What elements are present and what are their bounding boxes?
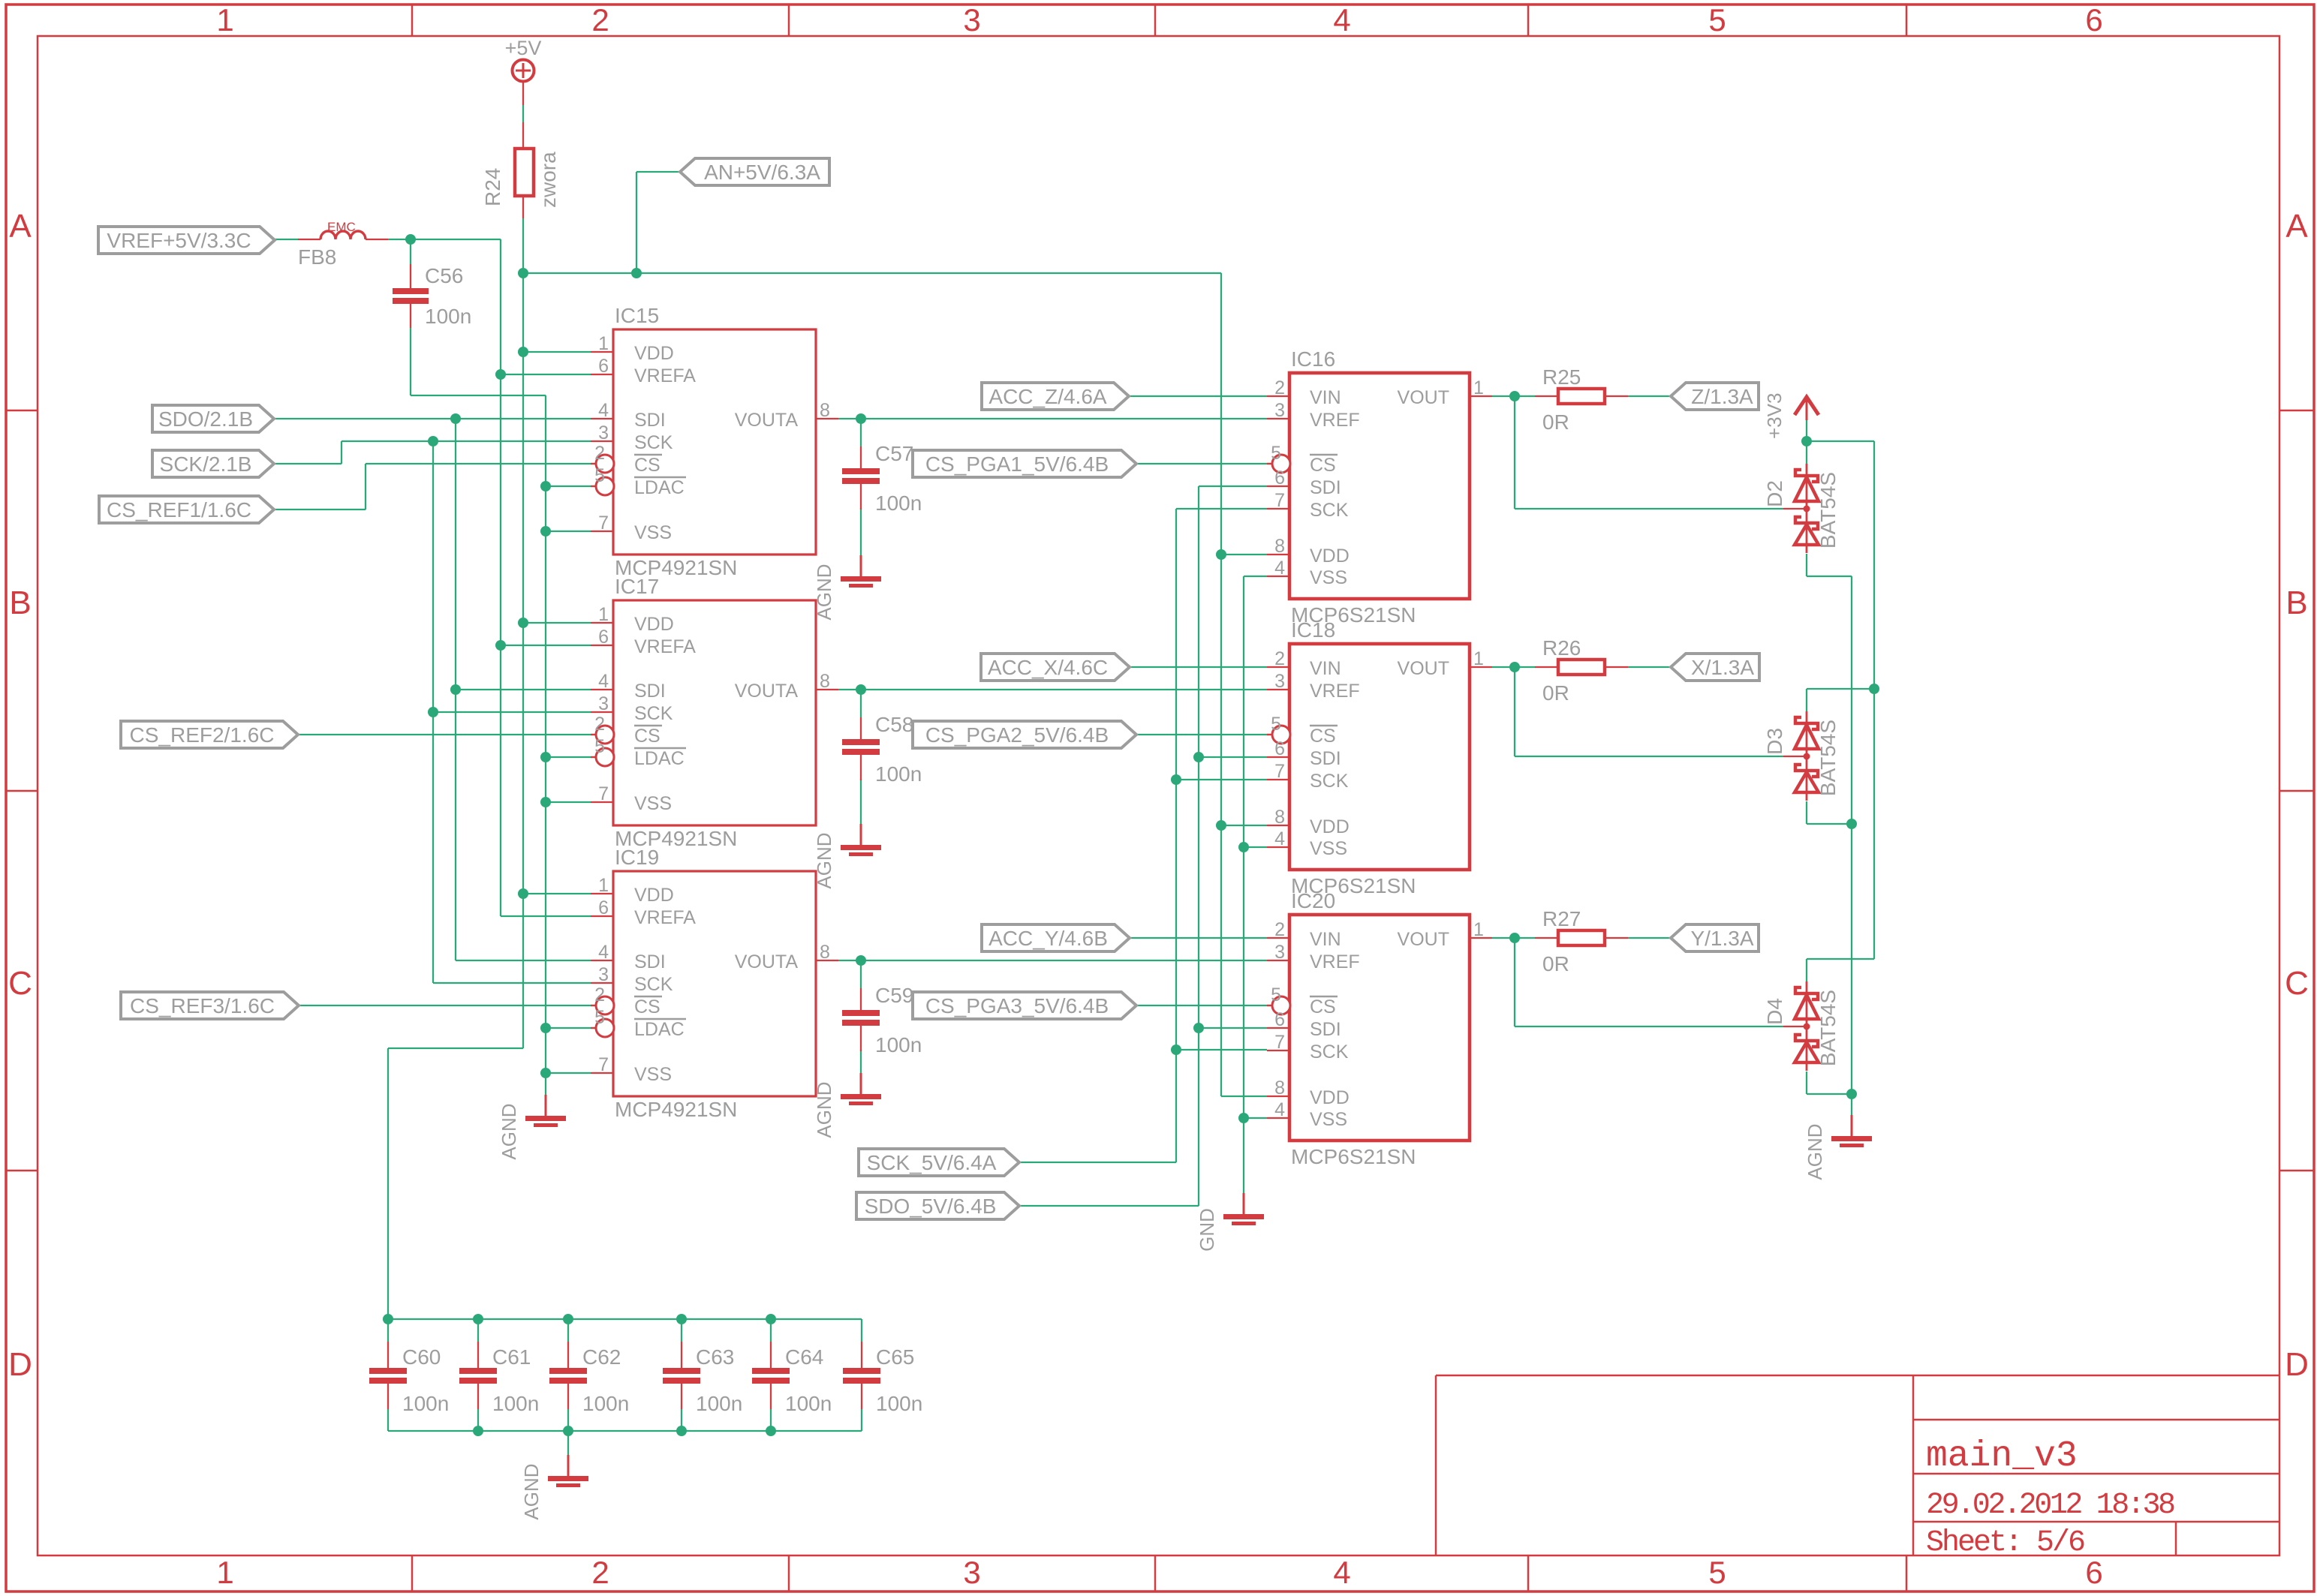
wire VOUT1 jog down to D2 mid [1514, 396, 1515, 509]
wire VOUT IC20 to R27 [1492, 937, 1535, 939]
svg-text:C: C [2285, 965, 2309, 1002]
junction SDO SDI IC17 [450, 684, 461, 695]
wire D2 top lead [1806, 441, 1807, 473]
wire VOUTA IC19 to VREF IC20 [838, 960, 1267, 961]
net label ACC_Z/4.6A [982, 383, 1129, 410]
svg-text:D2: D2 [1763, 480, 1786, 507]
wire SCK/2.1B jog [274, 463, 342, 464]
wire VSS IC15 row [546, 530, 591, 532]
capacitor C61 100n [459, 1342, 539, 1415]
svg-text:A: A [9, 208, 32, 245]
svg-text:IC19: IC19 [615, 846, 659, 869]
svg-text:8: 8 [820, 400, 830, 421]
junction cap bank top rail dots [383, 1314, 393, 1324]
wire VSS IC17 row [546, 801, 591, 803]
svg-text:6: 6 [598, 356, 609, 377]
svg-text:SCK/2.1B: SCK/2.1B [160, 452, 252, 476]
svg-text:CS: CS [1310, 996, 1336, 1017]
pin 7 VSS of IC19 [591, 1072, 613, 1074]
svg-text:VREFA: VREFA [634, 907, 696, 928]
frame row ticks left [6, 410, 38, 412]
pin 3 VREF of IC20 [1267, 960, 1289, 961]
wire PGA SCK chain vertical x1567 [1176, 508, 1267, 509]
net label SCK/2.1B [152, 450, 274, 477]
wire SDO/2.1B to SDI IC15 [274, 418, 591, 419]
svg-text:D: D [2285, 1346, 2309, 1383]
pin 7 VSS of IC17 [591, 801, 613, 803]
capacitor C65 100n [843, 1342, 922, 1415]
wire cap C60 stems [387, 1319, 389, 1342]
wire SDO net vertical x607 [455, 419, 456, 960]
svg-text:IC18: IC18 [1291, 618, 1335, 642]
wire VDD IC16 row [1221, 554, 1267, 555]
net label CS_PGA2_5V/6.4B [913, 721, 1136, 748]
svg-text:100n: 100n [582, 1392, 629, 1415]
svg-text:VSS: VSS [1310, 567, 1347, 588]
wire VSS IC18 row [1244, 846, 1267, 848]
capacitor C56 100n [393, 264, 471, 328]
svg-text:4: 4 [598, 942, 609, 963]
wire AN+5V flag stub [636, 171, 680, 173]
svg-text:2: 2 [1274, 377, 1285, 398]
svg-text:D: D [8, 1346, 32, 1383]
diode D2 BAT54S dual schottky [1763, 464, 1840, 553]
ground GND symbol [1196, 1193, 1264, 1252]
svg-text:R24: R24 [481, 168, 504, 206]
svg-text:VOUT: VOUT [1398, 658, 1449, 679]
svg-text:AGND: AGND [813, 1081, 835, 1138]
svg-text:D4: D4 [1763, 998, 1786, 1025]
svg-text:VREF: VREF [1310, 951, 1360, 972]
junction AGND VSS IC15 [540, 526, 551, 537]
wire LDAC IC15 row [546, 485, 597, 487]
svg-text:CS: CS [1310, 726, 1336, 747]
svg-text:SCK: SCK [1310, 771, 1349, 792]
svg-text:100n: 100n [696, 1392, 742, 1415]
svg-text:CS_REF2/1.6C: CS_REF2/1.6C [130, 723, 275, 747]
svg-text:5: 5 [594, 1007, 605, 1028]
svg-text:SDO/2.1B: SDO/2.1B [158, 407, 253, 431]
pin 2 VIN of IC18 [1267, 666, 1289, 668]
svg-text:C63: C63 [696, 1345, 734, 1369]
net label SCK_5V/6.4A [859, 1149, 1019, 1176]
junction PGA VSS IC20 [1238, 1113, 1249, 1123]
svg-text:1: 1 [598, 604, 609, 625]
junction PGA SDI IC18 [1193, 752, 1204, 762]
svg-text:R27: R27 [1542, 907, 1581, 930]
capacitor C58 100n [842, 713, 922, 786]
svg-text:3: 3 [598, 964, 609, 985]
svg-text:6: 6 [598, 627, 609, 648]
svg-text:SDI: SDI [634, 410, 666, 431]
svg-text:1: 1 [598, 333, 609, 354]
wire cap C61 stems [477, 1319, 479, 1342]
svg-text:1: 1 [1473, 648, 1484, 669]
pin 6 VREFA of IC19 [591, 915, 613, 917]
svg-text:CS: CS [634, 726, 660, 747]
svg-text:FB8: FB8 [298, 245, 336, 269]
wire SDI IC19 row [456, 960, 591, 961]
wire VREFA IC15 row [501, 374, 591, 375]
svg-text:AN+5V/6.3A: AN+5V/6.3A [704, 161, 820, 184]
junction D3 bottom [1846, 819, 1857, 829]
svg-text:4: 4 [1274, 558, 1285, 579]
junction PGA SDI IC20 [1193, 1023, 1204, 1033]
svg-text:SDI: SDI [1310, 477, 1341, 498]
wire SCK IC19 row [433, 982, 591, 984]
capacitor C60 100n [369, 1342, 449, 1415]
pin 7 SCK of IC18 [1267, 779, 1289, 780]
svg-text:AGND: AGND [813, 832, 835, 888]
junction VOUT1 [1509, 391, 1520, 401]
capacitor C57 100n [842, 442, 922, 515]
svg-text:3: 3 [598, 693, 609, 714]
wire C59 stem [860, 960, 862, 988]
junction AN+5V VDD IC16 [1216, 549, 1226, 560]
wire LDAC IC19 row [546, 1027, 597, 1029]
junction VOUT3 [1509, 933, 1520, 943]
ground AGND symbol [813, 1073, 881, 1138]
svg-text:IC20: IC20 [1291, 889, 1335, 912]
wire cap C64 stems [770, 1319, 772, 1342]
svg-text:3: 3 [1274, 671, 1285, 692]
pin 4 VSS of IC16 [1267, 576, 1289, 577]
IC IC19 MCP4921SN DAC [591, 846, 838, 1121]
wire +3V3 shaft [1806, 420, 1807, 441]
net label CS_REF3/1.6C [121, 992, 299, 1019]
junction VOUTA1 / C57 [856, 413, 866, 424]
pin 6 VREFA of IC15 [591, 374, 613, 375]
junction VREF VREFA IC17 [495, 640, 506, 651]
junction PGA VSS IC18 [1238, 842, 1249, 852]
svg-text:5: 5 [1271, 443, 1281, 464]
svg-text:VOUTA: VOUTA [735, 410, 799, 431]
wire R26 to X flag [1628, 666, 1671, 668]
svg-text:VREF: VREF [1310, 410, 1360, 431]
pin 2 CS of IC19 [591, 1005, 596, 1006]
svg-text:C61: C61 [492, 1345, 531, 1369]
svg-text:VSS: VSS [634, 793, 672, 814]
wire VOUT IC16 to R25 [1492, 395, 1535, 397]
wire VDD IC19 row [523, 893, 591, 894]
IC IC17 MCP4921SN DAC [591, 575, 838, 850]
pin 6 VREFA of IC17 [591, 645, 613, 646]
pin 4 SDI of IC19 [591, 960, 613, 961]
svg-text:100n: 100n [492, 1392, 539, 1415]
svg-text:6: 6 [1274, 738, 1285, 759]
junction AGND VSS IC17 [540, 797, 551, 807]
IC IC20 MCP6S21SN PGA [1267, 889, 1492, 1168]
junction AN+5V flag tap [631, 268, 642, 278]
svg-text:7: 7 [598, 1054, 609, 1075]
wire LDAC IC17 row [546, 756, 597, 758]
junction +5V VDD IC15 [518, 347, 528, 357]
pin 4 VSS of IC18 [1267, 846, 1289, 848]
svg-text:C56: C56 [425, 264, 463, 287]
svg-text:5: 5 [1271, 984, 1281, 1005]
IC IC16 MCP6S21SN PGA [1267, 347, 1492, 627]
inductor FB8 EMC ferrite bead [298, 220, 388, 269]
pin 5 LDAC of IC15 [591, 485, 596, 487]
net label SDO/2.1B [152, 405, 274, 432]
svg-text:8: 8 [820, 671, 830, 692]
svg-text:100n: 100n [402, 1392, 449, 1415]
svg-text:3: 3 [963, 2, 980, 38]
svg-text:VOUT: VOUT [1398, 387, 1449, 408]
wire C56 bottom to AGND rail [410, 328, 411, 395]
wire SDI IC18 row [1199, 756, 1267, 758]
svg-text:100n: 100n [875, 1033, 922, 1056]
svg-text:2: 2 [591, 1555, 609, 1590]
svg-text:100n: 100n [876, 1392, 922, 1415]
ground AGND symbol [498, 1095, 566, 1160]
svg-text:ACC_Y/4.6B: ACC_Y/4.6B [988, 927, 1108, 950]
pin 8 VDD of IC16 [1267, 554, 1289, 555]
svg-text:A: A [2285, 208, 2308, 245]
svg-text:7: 7 [598, 783, 609, 804]
wire D3 bottom jog [1806, 801, 1807, 824]
svg-text:BAT54S: BAT54S [1816, 472, 1840, 549]
frame column ticks top [411, 5, 414, 36]
svg-text:+3V3: +3V3 [1763, 393, 1786, 439]
capacitor C62 100n [549, 1342, 629, 1415]
svg-text:100n: 100n [425, 305, 471, 328]
junction AGND LDAC IC15 [540, 481, 551, 491]
junction VREF at FB8/C56 [405, 234, 416, 245]
wire diode AGND stub [1851, 1094, 1852, 1118]
ground AGND symbol [1804, 1115, 1872, 1180]
svg-text:SDI: SDI [1310, 748, 1341, 769]
svg-text:zwora: zwora [537, 152, 560, 208]
diode D4 BAT54S dual schottky [1763, 981, 1840, 1071]
wire cap bank AGND stem [567, 1431, 569, 1455]
svg-text:SDI: SDI [634, 681, 666, 702]
net label ACC_X/4.6C [981, 654, 1130, 681]
svg-text:3: 3 [963, 1555, 980, 1590]
junction VOUTA2 / C58 [856, 684, 866, 695]
wire SCK IC20 row [1176, 1049, 1267, 1050]
pin 6 SDI of IC16 [1267, 485, 1289, 487]
capacitor C64 100n [752, 1342, 832, 1415]
wire C57 stem [860, 419, 862, 446]
wire D3 top jog [1807, 688, 1874, 690]
svg-text:AGND: AGND [498, 1103, 520, 1159]
wire VDD IC18 row [1221, 825, 1267, 826]
svg-text:8: 8 [1274, 807, 1285, 828]
svg-text:1: 1 [216, 1555, 233, 1590]
svg-text:SCK: SCK [634, 703, 673, 724]
svg-text:VREF: VREF [1310, 681, 1360, 702]
svg-text:0R: 0R [1542, 952, 1569, 975]
junction SCK SCK IC15 [428, 436, 438, 446]
svg-text:4: 4 [1274, 1099, 1285, 1120]
junction D4 bottom / AGND [1846, 1089, 1857, 1099]
svg-text:2: 2 [1274, 648, 1285, 669]
junction +3V3 D3 top [1869, 684, 1879, 694]
pin 3 VREF of IC18 [1267, 689, 1289, 690]
wire VDD IC17 row [523, 622, 591, 624]
svg-text:AGND: AGND [520, 1463, 543, 1519]
wire SDI IC17 row [456, 689, 591, 690]
pin 8 VOUTA of IC17 [816, 689, 838, 690]
svg-text:2: 2 [594, 443, 605, 464]
net label CS_PGA3_5V/6.4B [913, 992, 1136, 1019]
svg-text:R26: R26 [1542, 636, 1581, 660]
svg-text:4: 4 [1274, 828, 1285, 849]
junction VOUT2 [1509, 662, 1520, 672]
svg-text:6: 6 [1274, 1009, 1285, 1030]
wire VDD IC20 row [1221, 1096, 1267, 1097]
ground AGND symbol [520, 1455, 588, 1520]
svg-text:VSS: VSS [1310, 1109, 1347, 1130]
wire cap C62 stems [567, 1319, 569, 1342]
svg-text:5: 5 [1708, 1555, 1726, 1590]
wire CS_PGA1 to CS IC16 [1136, 463, 1273, 464]
svg-text:VDD: VDD [1310, 546, 1350, 567]
svg-text:5: 5 [594, 465, 605, 486]
pin 4 VSS of IC20 [1267, 1117, 1289, 1119]
svg-text:SDI: SDI [1310, 1019, 1341, 1040]
ground AGND symbol [813, 555, 881, 621]
svg-text:SDI: SDI [634, 951, 666, 972]
net label SDO_5V/6.4B [856, 1192, 1019, 1219]
wire VREFA IC17 row [501, 645, 591, 646]
pin 8 VDD of IC20 [1267, 1096, 1289, 1097]
wire R27 to Y flag [1628, 937, 1671, 939]
svg-text:4: 4 [598, 400, 609, 421]
svg-text:VREF+5V/3.3C: VREF+5V/3.3C [107, 229, 251, 252]
wire +5V rail vertical x697 [522, 105, 524, 122]
wire VOUT IC18 to R26 [1492, 666, 1535, 668]
svg-text:1: 1 [1473, 919, 1484, 940]
svg-text:CS: CS [634, 996, 660, 1017]
svg-text:VSS: VSS [1310, 838, 1347, 859]
wire CS_REF1 jog to CS IC15 [274, 509, 366, 510]
pin 5 CS of IC20 [1267, 1005, 1272, 1006]
svg-text:SCK_5V/6.4A: SCK_5V/6.4A [867, 1151, 997, 1174]
svg-text:100n: 100n [875, 762, 922, 786]
junction +3V3 / D2 top [1801, 436, 1812, 446]
junction SCK SCK IC17 [428, 707, 438, 717]
svg-text:ACC_Z/4.6A: ACC_Z/4.6A [988, 385, 1106, 408]
pin 2 VIN of IC20 [1267, 937, 1289, 939]
svg-text:C60: C60 [402, 1345, 441, 1369]
svg-text:CS_PGA3_5V/6.4B: CS_PGA3_5V/6.4B [925, 994, 1109, 1017]
svg-text:29.02.2012 18:38: 29.02.2012 18:38 [1926, 1489, 2174, 1522]
pin 8 VOUTA of IC19 [816, 960, 838, 961]
IC IC15 MCP4921SN DAC [591, 304, 838, 579]
wire VOUT2 jog down to D3 mid [1514, 667, 1515, 756]
svg-text:1: 1 [598, 875, 609, 896]
pin 1 VOUT of IC20 [1470, 937, 1492, 939]
pin 1 VDD of IC19 [591, 893, 613, 894]
wire +5V to cap bank horizontal y1397 [388, 1047, 523, 1049]
resistor R24 zwora [481, 122, 560, 218]
svg-text:100n: 100n [785, 1392, 832, 1415]
svg-text:5: 5 [594, 736, 605, 757]
pin 3 VREF of IC16 [1267, 418, 1289, 419]
junction AN+5V VDD IC18 [1216, 820, 1226, 831]
svg-text:VDD: VDD [634, 614, 674, 635]
svg-text:5: 5 [1708, 2, 1726, 38]
svg-text:BAT54S: BAT54S [1816, 990, 1840, 1066]
svg-text:VSS: VSS [634, 1064, 672, 1085]
wire cap bank right side C65 [861, 1319, 862, 1342]
title block outline [1436, 1375, 2279, 1377]
resistor R25 0R [1535, 365, 1628, 434]
wire VOUTA IC17 to VREF IC18 [838, 689, 1267, 690]
pin 3 SCK of IC15 [591, 440, 613, 442]
pin 6 SDI of IC20 [1267, 1027, 1289, 1029]
svg-text:2: 2 [1274, 919, 1285, 940]
svg-text:Z/1.3A: Z/1.3A [1691, 385, 1753, 408]
svg-text:6: 6 [598, 897, 609, 918]
wire CS_REF3 to CS IC19 [299, 1005, 597, 1006]
wire C58 stem [860, 690, 862, 717]
svg-text:8: 8 [1274, 1078, 1285, 1099]
svg-text:C64: C64 [785, 1345, 823, 1369]
svg-text:VREFA: VREFA [634, 365, 696, 386]
svg-text:4: 4 [1333, 1555, 1350, 1590]
wire ACC_Y to VIN IC20 [1130, 937, 1267, 939]
svg-text:4: 4 [598, 671, 609, 692]
svg-text:VOUTA: VOUTA [735, 681, 799, 702]
junction cap bank bottom rail dots [473, 1426, 483, 1436]
svg-text:VIN: VIN [1310, 658, 1341, 679]
svg-text:VDD: VDD [1310, 1087, 1350, 1108]
svg-text:C58: C58 [875, 713, 913, 736]
svg-text:SDO_5V/6.4B: SDO_5V/6.4B [865, 1195, 997, 1218]
svg-text:6: 6 [2085, 2, 2102, 38]
wire AN+5V PGA VDD vertical x1627 [1220, 273, 1222, 1096]
junction +5V VDD IC17 [518, 618, 528, 628]
svg-text:CS: CS [1310, 455, 1336, 476]
pin 1 VOUT of IC18 [1470, 666, 1492, 668]
svg-text:VOUT: VOUT [1398, 929, 1449, 950]
IC IC18 MCP6S21SN PGA [1267, 618, 1492, 897]
svg-text:ACC_X/4.6C: ACC_X/4.6C [988, 656, 1108, 679]
svg-text:3: 3 [1274, 942, 1285, 963]
wire PGA SDI chain vertical x1597 [1199, 485, 1267, 487]
pin 5 CS of IC18 [1267, 734, 1272, 735]
junction SDO SDI IC15 [450, 413, 461, 424]
svg-text:VDD: VDD [1310, 816, 1350, 837]
svg-text:SCK: SCK [634, 974, 673, 995]
net label ACC_Y/4.6B [982, 924, 1130, 951]
wire ACC_Z to VIN IC16 [1129, 395, 1267, 397]
svg-text:CS_REF1/1.6C: CS_REF1/1.6C [107, 498, 251, 521]
wire D4 top jog [1807, 958, 1874, 960]
svg-text:100n: 100n [875, 491, 922, 515]
frame row ticks right [2279, 410, 2314, 412]
net label X/1.3A [1671, 654, 1759, 681]
svg-text:+5V: +5V [505, 37, 542, 59]
svg-text:Sheet: 5/6: Sheet: 5/6 [1926, 1526, 2084, 1560]
wire VOUTA IC15 to VREF IC16 net ACC_Z ref [838, 418, 1267, 419]
svg-text:SCK: SCK [1310, 500, 1349, 521]
svg-text:6: 6 [2085, 1555, 2102, 1590]
pin 7 SCK of IC20 [1267, 1050, 1289, 1051]
svg-text:BAT54S: BAT54S [1816, 720, 1840, 796]
wire SDI IC20 row [1199, 1027, 1267, 1029]
svg-text:MCP6S21SN: MCP6S21SN [1291, 1145, 1416, 1168]
svg-text:5: 5 [1271, 714, 1281, 735]
pin 6 SDI of IC18 [1267, 756, 1289, 758]
supply +5V symbol [505, 37, 542, 105]
pin 1 VDD of IC17 [591, 622, 613, 624]
net label Z/1.3A [1671, 383, 1759, 410]
capacitor C59 100n [842, 984, 922, 1056]
